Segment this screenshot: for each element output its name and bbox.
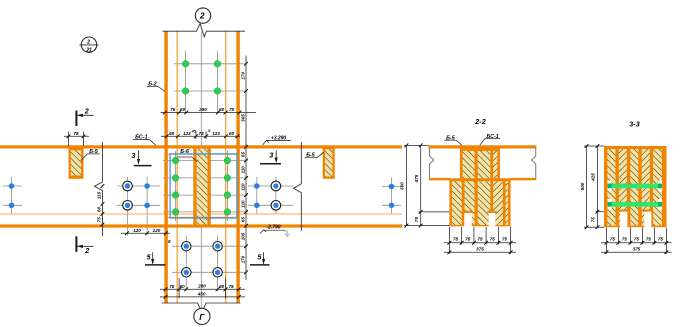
svg-text:2-2: 2-2 <box>474 117 485 126</box>
svg-text:500: 500 <box>580 182 585 190</box>
svg-text:Б-5: Б-5 <box>446 135 456 141</box>
svg-text:75: 75 <box>97 217 102 223</box>
svg-text:280: 280 <box>198 107 207 112</box>
svg-text:75: 75 <box>658 237 664 242</box>
svg-text:21: 21 <box>85 47 92 53</box>
svg-text:305: 305 <box>240 114 245 122</box>
svg-text:123: 123 <box>183 131 191 136</box>
svg-text:75: 75 <box>169 284 175 289</box>
svg-text:115: 115 <box>97 191 102 199</box>
svg-text:75: 75 <box>465 237 471 242</box>
svg-text:375: 375 <box>476 247 484 252</box>
svg-text:60: 60 <box>180 284 186 289</box>
svg-text:60: 60 <box>219 284 225 289</box>
svg-text:170: 170 <box>240 72 245 80</box>
svg-text:500: 500 <box>400 182 405 190</box>
svg-text:75: 75 <box>634 237 640 242</box>
svg-text:75: 75 <box>73 131 79 136</box>
svg-text:75: 75 <box>199 131 205 136</box>
svg-text:5: 5 <box>168 239 171 244</box>
svg-text:75: 75 <box>229 107 235 112</box>
svg-text:БС-1: БС-1 <box>135 135 147 141</box>
svg-text:3: 3 <box>269 151 273 160</box>
svg-text:Б-5: Б-5 <box>306 153 316 159</box>
svg-text:75: 75 <box>477 237 483 242</box>
svg-text:60: 60 <box>97 206 102 212</box>
svg-text:123: 123 <box>212 131 220 136</box>
svg-text:-2.790: -2.790 <box>266 225 280 231</box>
svg-text:2: 2 <box>84 246 89 255</box>
svg-text:БС-1: БС-1 <box>486 134 498 140</box>
svg-text:75: 75 <box>490 237 496 242</box>
svg-text:120: 120 <box>153 228 161 233</box>
svg-text:75: 75 <box>622 237 628 242</box>
svg-text:+3.290: +3.290 <box>271 135 287 141</box>
svg-text:110: 110 <box>240 183 245 191</box>
svg-text:75: 75 <box>229 284 235 289</box>
svg-text:110: 110 <box>240 200 245 208</box>
svg-text:60: 60 <box>219 107 225 112</box>
svg-text:Г: Г <box>199 312 205 322</box>
svg-text:45: 45 <box>190 128 196 133</box>
svg-text:375: 375 <box>633 247 641 252</box>
svg-text:2: 2 <box>199 11 205 21</box>
svg-text:3-3: 3-3 <box>629 120 639 129</box>
svg-text:75: 75 <box>414 217 419 223</box>
svg-text:Б-6: Б-6 <box>180 149 190 155</box>
svg-text:75: 75 <box>610 237 616 242</box>
svg-text:65: 65 <box>240 152 245 158</box>
svg-text:60: 60 <box>180 107 186 112</box>
svg-text:Б-2: Б-2 <box>148 82 157 88</box>
svg-text:2: 2 <box>84 107 89 116</box>
svg-text:170: 170 <box>240 255 245 263</box>
svg-text:2: 2 <box>86 40 90 46</box>
svg-text:75: 75 <box>646 237 652 242</box>
svg-text:425: 425 <box>591 173 596 182</box>
svg-text:65: 65 <box>240 217 245 223</box>
svg-text:60: 60 <box>229 131 235 136</box>
svg-text:110: 110 <box>240 166 245 174</box>
svg-text:105: 105 <box>240 232 245 240</box>
svg-text:75: 75 <box>591 217 596 223</box>
svg-text:Б-5: Б-5 <box>89 149 99 155</box>
svg-text:450: 450 <box>197 292 206 297</box>
svg-text:75: 75 <box>170 107 176 112</box>
svg-text:75: 75 <box>502 237 508 242</box>
svg-text:120: 120 <box>133 228 141 233</box>
svg-text:60: 60 <box>169 131 175 136</box>
svg-text:3: 3 <box>131 151 135 160</box>
svg-text:475: 475 <box>414 174 419 183</box>
svg-text:280: 280 <box>197 284 206 289</box>
svg-text:75: 75 <box>453 237 459 242</box>
